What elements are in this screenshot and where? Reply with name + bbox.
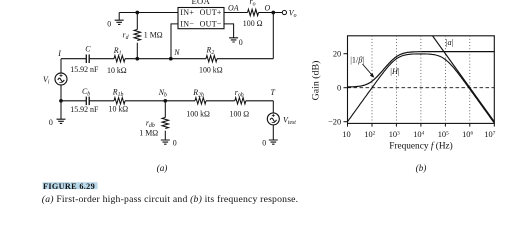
source Vi bbox=[55, 73, 67, 85]
ground below Vtest bbox=[269, 140, 278, 144]
svg-text:|a|: |a| bbox=[446, 38, 454, 47]
wire junction to ground bbox=[60, 101, 62, 119]
ground at OUT- bbox=[229, 38, 238, 42]
wire IN- down to node N bbox=[171, 24, 178, 59]
wire node O down to R2 bbox=[272, 13, 274, 59]
wire ro to terminal bbox=[259, 12, 283, 14]
x tick 10^7 bbox=[493, 123, 495, 126]
dashed 0 dB line bbox=[348, 87, 495, 89]
junction rd / main row bbox=[135, 57, 139, 61]
label |1/beta| with arrow bbox=[350, 55, 374, 77]
svg-text:Nb: Nb bbox=[158, 88, 167, 99]
gridline 10^2 bbox=[371, 36, 373, 124]
svg-text:Cb: Cb bbox=[82, 87, 90, 98]
wire I to C bbox=[61, 58, 86, 60]
svg-text:Vtest: Vtest bbox=[283, 115, 296, 126]
ground below Vi bbox=[57, 119, 66, 123]
resistor R1 10 kOhm bbox=[114, 56, 125, 62]
svg-text:1 MΩ: 1 MΩ bbox=[144, 30, 163, 39]
svg-text:0: 0 bbox=[262, 138, 266, 147]
output terminal circle bbox=[282, 10, 286, 14]
wire R1b to R2b bbox=[125, 100, 195, 102]
resistor ro 100 Ohm bbox=[248, 9, 259, 15]
svg-text:0: 0 bbox=[173, 139, 177, 148]
svg-text:105: 105 bbox=[438, 130, 449, 139]
svg-text:Vo: Vo bbox=[289, 9, 297, 20]
caption highlight bbox=[43, 182, 98, 189]
svg-text:rob: rob bbox=[235, 88, 244, 99]
wire Vi to bottom junction bbox=[60, 85, 62, 101]
wire R2b to rob bbox=[206, 100, 235, 102]
svg-text:20: 20 bbox=[333, 49, 341, 58]
svg-text:10 kΩ: 10 kΩ bbox=[109, 105, 129, 114]
svg-text:EOA: EOA bbox=[191, 0, 210, 6]
y tick 0 dB bbox=[344, 87, 348, 89]
svg-text:T: T bbox=[271, 88, 276, 97]
y tick 20 dB bbox=[344, 53, 348, 55]
svg-text:rdb: rdb bbox=[146, 118, 155, 129]
svg-text:IN+: IN+ bbox=[180, 8, 194, 17]
frequency-response plot axes box bbox=[348, 36, 495, 124]
svg-text:Gain (dB): Gain (dB) bbox=[311, 61, 322, 101]
svg-text:R1b: R1b bbox=[112, 87, 124, 98]
svg-text:104: 104 bbox=[413, 130, 424, 139]
svg-text:107: 107 bbox=[484, 130, 495, 139]
svg-text:−20: −20 bbox=[328, 117, 341, 126]
x tick 10^6 bbox=[469, 123, 471, 126]
gridline 10^6 bbox=[469, 36, 471, 124]
wire OUT+ to ro bbox=[224, 12, 248, 14]
node Nb dot bbox=[163, 99, 167, 103]
svg-text:0: 0 bbox=[107, 20, 111, 29]
svg-text:IN−: IN− bbox=[180, 20, 194, 29]
svg-text:I: I bbox=[57, 49, 61, 58]
svg-text:(b): (b) bbox=[416, 163, 427, 173]
svg-text:100 kΩ: 100 kΩ bbox=[199, 66, 223, 75]
wire Vtest to ground bbox=[272, 125, 274, 140]
wire I down to Vi bbox=[60, 59, 62, 73]
resistor rd 1 MOhm vertical bbox=[134, 13, 140, 59]
svg-text:R2b: R2b bbox=[192, 88, 204, 99]
wire R2 to feedback corner bbox=[217, 58, 273, 60]
ground top-left bbox=[115, 13, 124, 25]
curve |H| closed-loop response bbox=[348, 54, 495, 123]
svg-text:10 kΩ: 10 kΩ bbox=[107, 66, 127, 75]
svg-text:15.92 nF: 15.92 nF bbox=[70, 105, 99, 114]
svg-text:ro: ro bbox=[250, 0, 256, 7]
ground below rdb bbox=[161, 140, 170, 144]
wire junction to Cb bbox=[61, 100, 86, 102]
resistor rdb 1 MOhm vertical bbox=[162, 101, 168, 140]
wire T down to Vtest bbox=[272, 101, 274, 113]
svg-text:0: 0 bbox=[337, 83, 341, 92]
svg-text:rd: rd bbox=[123, 31, 129, 42]
node O dot bbox=[271, 11, 275, 15]
svg-text:OUT−: OUT− bbox=[200, 20, 222, 29]
svg-text:C: C bbox=[85, 44, 91, 53]
wire Cb to R1b bbox=[89, 100, 114, 102]
svg-text:102: 102 bbox=[364, 130, 375, 139]
svg-text:N: N bbox=[173, 48, 180, 57]
svg-text:OA: OA bbox=[228, 3, 239, 12]
svg-text:0: 0 bbox=[49, 118, 53, 127]
svg-text:106: 106 bbox=[462, 130, 473, 139]
svg-text:R1: R1 bbox=[113, 46, 122, 57]
svg-text:Frequency f (Hz): Frequency f (Hz) bbox=[389, 140, 453, 151]
x tick 10^1 bbox=[347, 123, 349, 126]
svg-text:100 Ω: 100 Ω bbox=[243, 19, 263, 28]
svg-text:(a) First-order high-pass circ: (a) First-order high-pass circuit and (b… bbox=[42, 194, 298, 205]
curve |1/beta| noise gain bbox=[348, 52, 495, 87]
svg-text:103: 103 bbox=[389, 130, 400, 139]
resistor R1b 10 kOhm bbox=[114, 98, 125, 104]
x tick 10^3 bbox=[395, 123, 397, 126]
svg-text:0: 0 bbox=[239, 38, 243, 47]
wire OUT- to ground bbox=[224, 24, 234, 38]
node N dot bbox=[169, 57, 173, 61]
curve |a| open-loop gain bbox=[433, 36, 495, 122]
gridline 10^4 bbox=[420, 36, 422, 124]
gridline 10^5 bbox=[444, 36, 446, 124]
y tick −20 dB bbox=[344, 121, 348, 123]
wire rob to T bbox=[246, 100, 273, 102]
svg-text:FIGURE 6.29: FIGURE 6.29 bbox=[43, 182, 95, 191]
resistor R2b 100 kOhm bbox=[195, 98, 206, 104]
x tick 10^2 bbox=[371, 123, 373, 126]
x tick 10^5 bbox=[444, 123, 446, 126]
capacitor Cb 15.92 nF bbox=[86, 97, 89, 106]
svg-text:(a): (a) bbox=[157, 163, 168, 173]
source Vtest bbox=[267, 113, 279, 125]
resistor rob 100 Ohm bbox=[235, 98, 246, 104]
wire C to R1 bbox=[89, 58, 114, 60]
svg-text:Vi: Vi bbox=[43, 75, 50, 86]
wire: IN+ rail from ground to op-amp bbox=[119, 12, 178, 14]
svg-text:1 MΩ: 1 MΩ bbox=[139, 129, 158, 138]
svg-text:|H|: |H| bbox=[390, 67, 400, 76]
junction top rail / rd bbox=[135, 11, 139, 15]
svg-text:15.92 nF: 15.92 nF bbox=[70, 65, 99, 74]
svg-text:O: O bbox=[265, 3, 271, 12]
svg-text:OUT+: OUT+ bbox=[200, 8, 222, 17]
wire R1 to N bbox=[125, 58, 206, 60]
svg-text:|1/β|: |1/β| bbox=[350, 55, 364, 64]
svg-text:100 Ω: 100 Ω bbox=[230, 110, 250, 119]
x tick 10^4 bbox=[420, 123, 422, 126]
gridline 10^3 bbox=[395, 36, 397, 124]
resistor R2 100 kOhm bbox=[206, 56, 217, 62]
svg-text:10: 10 bbox=[342, 130, 350, 139]
op-amp EOA box bbox=[178, 8, 224, 29]
junction Vi / Cb / ground bbox=[59, 99, 63, 103]
svg-text:R2: R2 bbox=[206, 45, 215, 56]
capacitor C 15.92 nF bbox=[86, 55, 89, 64]
svg-text:100 kΩ: 100 kΩ bbox=[186, 110, 210, 119]
